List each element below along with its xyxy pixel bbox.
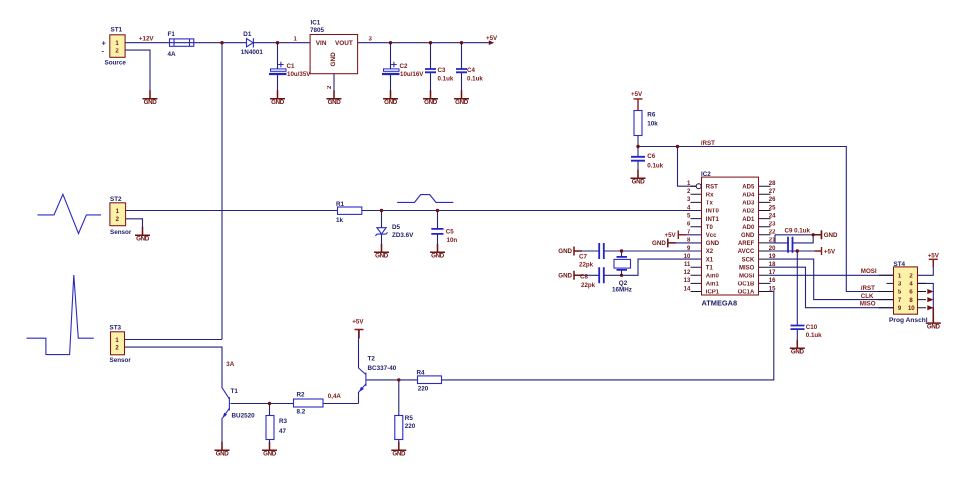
svg-text:26: 26 — [769, 197, 776, 203]
svg-text:1N4001: 1N4001 — [241, 49, 264, 56]
svg-text:ST2: ST2 — [110, 196, 122, 203]
svg-text:X2: X2 — [706, 249, 714, 255]
svg-text:0.1uk: 0.1uk — [438, 75, 454, 82]
svg-text:ST4: ST4 — [894, 261, 906, 268]
svg-text:+5V: +5V — [631, 91, 643, 98]
svg-text:C5: C5 — [446, 229, 454, 236]
svg-text:3A: 3A — [226, 361, 234, 368]
svg-text:AD3: AD3 — [742, 201, 755, 207]
svg-text:18: 18 — [769, 262, 776, 268]
svg-text:Tx: Tx — [706, 201, 714, 207]
svg-text:F1: F1 — [168, 31, 176, 38]
svg-text:R2: R2 — [297, 391, 306, 398]
svg-text:OC1A: OC1A — [738, 290, 755, 296]
svg-text:Sensor: Sensor — [110, 357, 132, 364]
svg-text:AVCC: AVCC — [738, 249, 755, 255]
svg-text:0.1uk: 0.1uk — [467, 75, 483, 82]
svg-text:28: 28 — [769, 181, 776, 187]
svg-text:ST1: ST1 — [111, 27, 123, 34]
svg-text:C1: C1 — [287, 63, 295, 70]
svg-text:VIN: VIN — [316, 40, 327, 47]
svg-text:C10: C10 — [806, 324, 818, 331]
svg-text:R1: R1 — [336, 201, 345, 208]
svg-text:SCK: SCK — [742, 257, 755, 263]
svg-text:10k: 10k — [647, 121, 658, 128]
svg-text:AD0: AD0 — [742, 225, 755, 231]
svg-text:ZD3.6V: ZD3.6V — [392, 232, 414, 239]
svg-text:+5V: +5V — [824, 248, 836, 255]
svg-text:Sensor: Sensor — [110, 229, 132, 236]
svg-text:25: 25 — [769, 205, 776, 211]
svg-text:D5: D5 — [392, 224, 401, 231]
svg-text:R6: R6 — [647, 112, 656, 119]
svg-text:C2: C2 — [400, 63, 408, 70]
svg-text:VOUT: VOUT — [335, 40, 353, 47]
svg-text:GND: GND — [741, 233, 755, 239]
svg-text:BU2520: BU2520 — [232, 413, 256, 420]
svg-text:IC2: IC2 — [701, 171, 711, 178]
svg-text:27: 27 — [769, 189, 776, 195]
svg-text:10u/16V: 10u/16V — [400, 71, 424, 78]
svg-text:20: 20 — [769, 246, 776, 252]
svg-text:Vcc: Vcc — [706, 233, 717, 239]
svg-text:15: 15 — [769, 286, 776, 292]
svg-text:T2: T2 — [368, 356, 376, 363]
svg-text:21: 21 — [769, 238, 776, 244]
svg-text:X1: X1 — [706, 257, 714, 263]
svg-text:22pk: 22pk — [579, 262, 594, 269]
svg-text:7805: 7805 — [310, 27, 325, 34]
svg-text:ST3: ST3 — [110, 325, 122, 332]
svg-text:T0: T0 — [706, 225, 714, 231]
svg-text:AD4: AD4 — [742, 193, 755, 199]
svg-text:MOSI: MOSI — [861, 268, 877, 275]
svg-text:16: 16 — [769, 278, 776, 284]
svg-text:22pk: 22pk — [581, 282, 596, 289]
svg-text:0,4A: 0,4A — [328, 393, 342, 400]
svg-text:INT0: INT0 — [706, 209, 720, 215]
svg-text:4A: 4A — [168, 51, 177, 58]
svg-text:10: 10 — [908, 306, 915, 312]
svg-text:C3: C3 — [438, 67, 446, 74]
svg-text:220: 220 — [405, 423, 416, 430]
svg-text:/RST: /RST — [861, 285, 875, 292]
svg-text:0.1uk: 0.1uk — [806, 332, 822, 339]
svg-text:C8: C8 — [580, 273, 588, 280]
svg-text:IC1: IC1 — [311, 19, 321, 26]
svg-text:1k: 1k — [336, 217, 344, 224]
svg-text:BC337-40: BC337-40 — [368, 365, 397, 372]
svg-text:MOSI: MOSI — [739, 274, 755, 280]
svg-text:10u/35V: 10u/35V — [287, 71, 311, 78]
svg-text:/RST: /RST — [701, 140, 715, 147]
svg-text:10: 10 — [684, 254, 691, 260]
svg-text:MISO: MISO — [860, 301, 876, 308]
svg-text:AD2: AD2 — [742, 209, 755, 215]
svg-text:47: 47 — [279, 428, 287, 435]
svg-text:GND: GND — [706, 241, 720, 247]
svg-text:INT1: INT1 — [706, 217, 720, 223]
svg-text:R5: R5 — [405, 415, 414, 422]
svg-text:Ain1: Ain1 — [706, 282, 720, 288]
svg-text:+12V: +12V — [139, 35, 154, 42]
svg-text:220: 220 — [418, 386, 429, 393]
svg-text:23: 23 — [769, 222, 776, 228]
svg-text:Rx: Rx — [706, 193, 714, 199]
svg-text:RST: RST — [706, 184, 718, 190]
svg-text:D1: D1 — [243, 31, 252, 38]
svg-text:ATMEGA8: ATMEGA8 — [702, 299, 738, 308]
svg-text:+5V: +5V — [352, 318, 364, 325]
svg-text:Prog Anschl: Prog Anschl — [889, 317, 928, 324]
svg-text:AD1: AD1 — [742, 217, 755, 223]
svg-text:CLK: CLK — [861, 293, 874, 300]
svg-text:R4: R4 — [417, 370, 426, 377]
svg-text:C6: C6 — [647, 153, 655, 160]
svg-text:16MHz: 16MHz — [612, 287, 632, 294]
svg-text:8.2: 8.2 — [297, 409, 306, 416]
svg-text:10n: 10n — [447, 237, 458, 244]
svg-text:+5V: +5V — [665, 232, 677, 239]
svg-text:17: 17 — [769, 270, 776, 276]
svg-text:14: 14 — [684, 286, 691, 292]
svg-text:AD5: AD5 — [742, 184, 755, 190]
svg-text:+5V: +5V — [928, 253, 940, 260]
svg-text:11: 11 — [684, 262, 691, 268]
svg-text:0.1uk: 0.1uk — [647, 162, 663, 169]
svg-text:Source: Source — [105, 59, 127, 66]
svg-text:Ain0: Ain0 — [706, 274, 720, 280]
svg-text:GND: GND — [330, 52, 337, 67]
svg-text:C7: C7 — [579, 253, 587, 260]
svg-text:13: 13 — [684, 278, 691, 284]
svg-text:+5V: +5V — [486, 35, 498, 42]
svg-text:OC1B: OC1B — [738, 282, 755, 288]
svg-text:T1: T1 — [231, 388, 239, 395]
svg-text:12: 12 — [684, 270, 691, 276]
svg-text:C9 0.1uk: C9 0.1uk — [785, 227, 811, 234]
svg-text:22: 22 — [769, 230, 776, 236]
svg-text:T1: T1 — [706, 265, 714, 271]
svg-text:24: 24 — [769, 213, 776, 219]
svg-text:MISO: MISO — [739, 265, 755, 271]
svg-text:R3: R3 — [279, 418, 288, 425]
svg-text:C4: C4 — [467, 67, 475, 74]
svg-text:19: 19 — [769, 254, 776, 260]
svg-text:AREF: AREF — [738, 241, 755, 247]
svg-text:ICP1: ICP1 — [706, 290, 720, 296]
